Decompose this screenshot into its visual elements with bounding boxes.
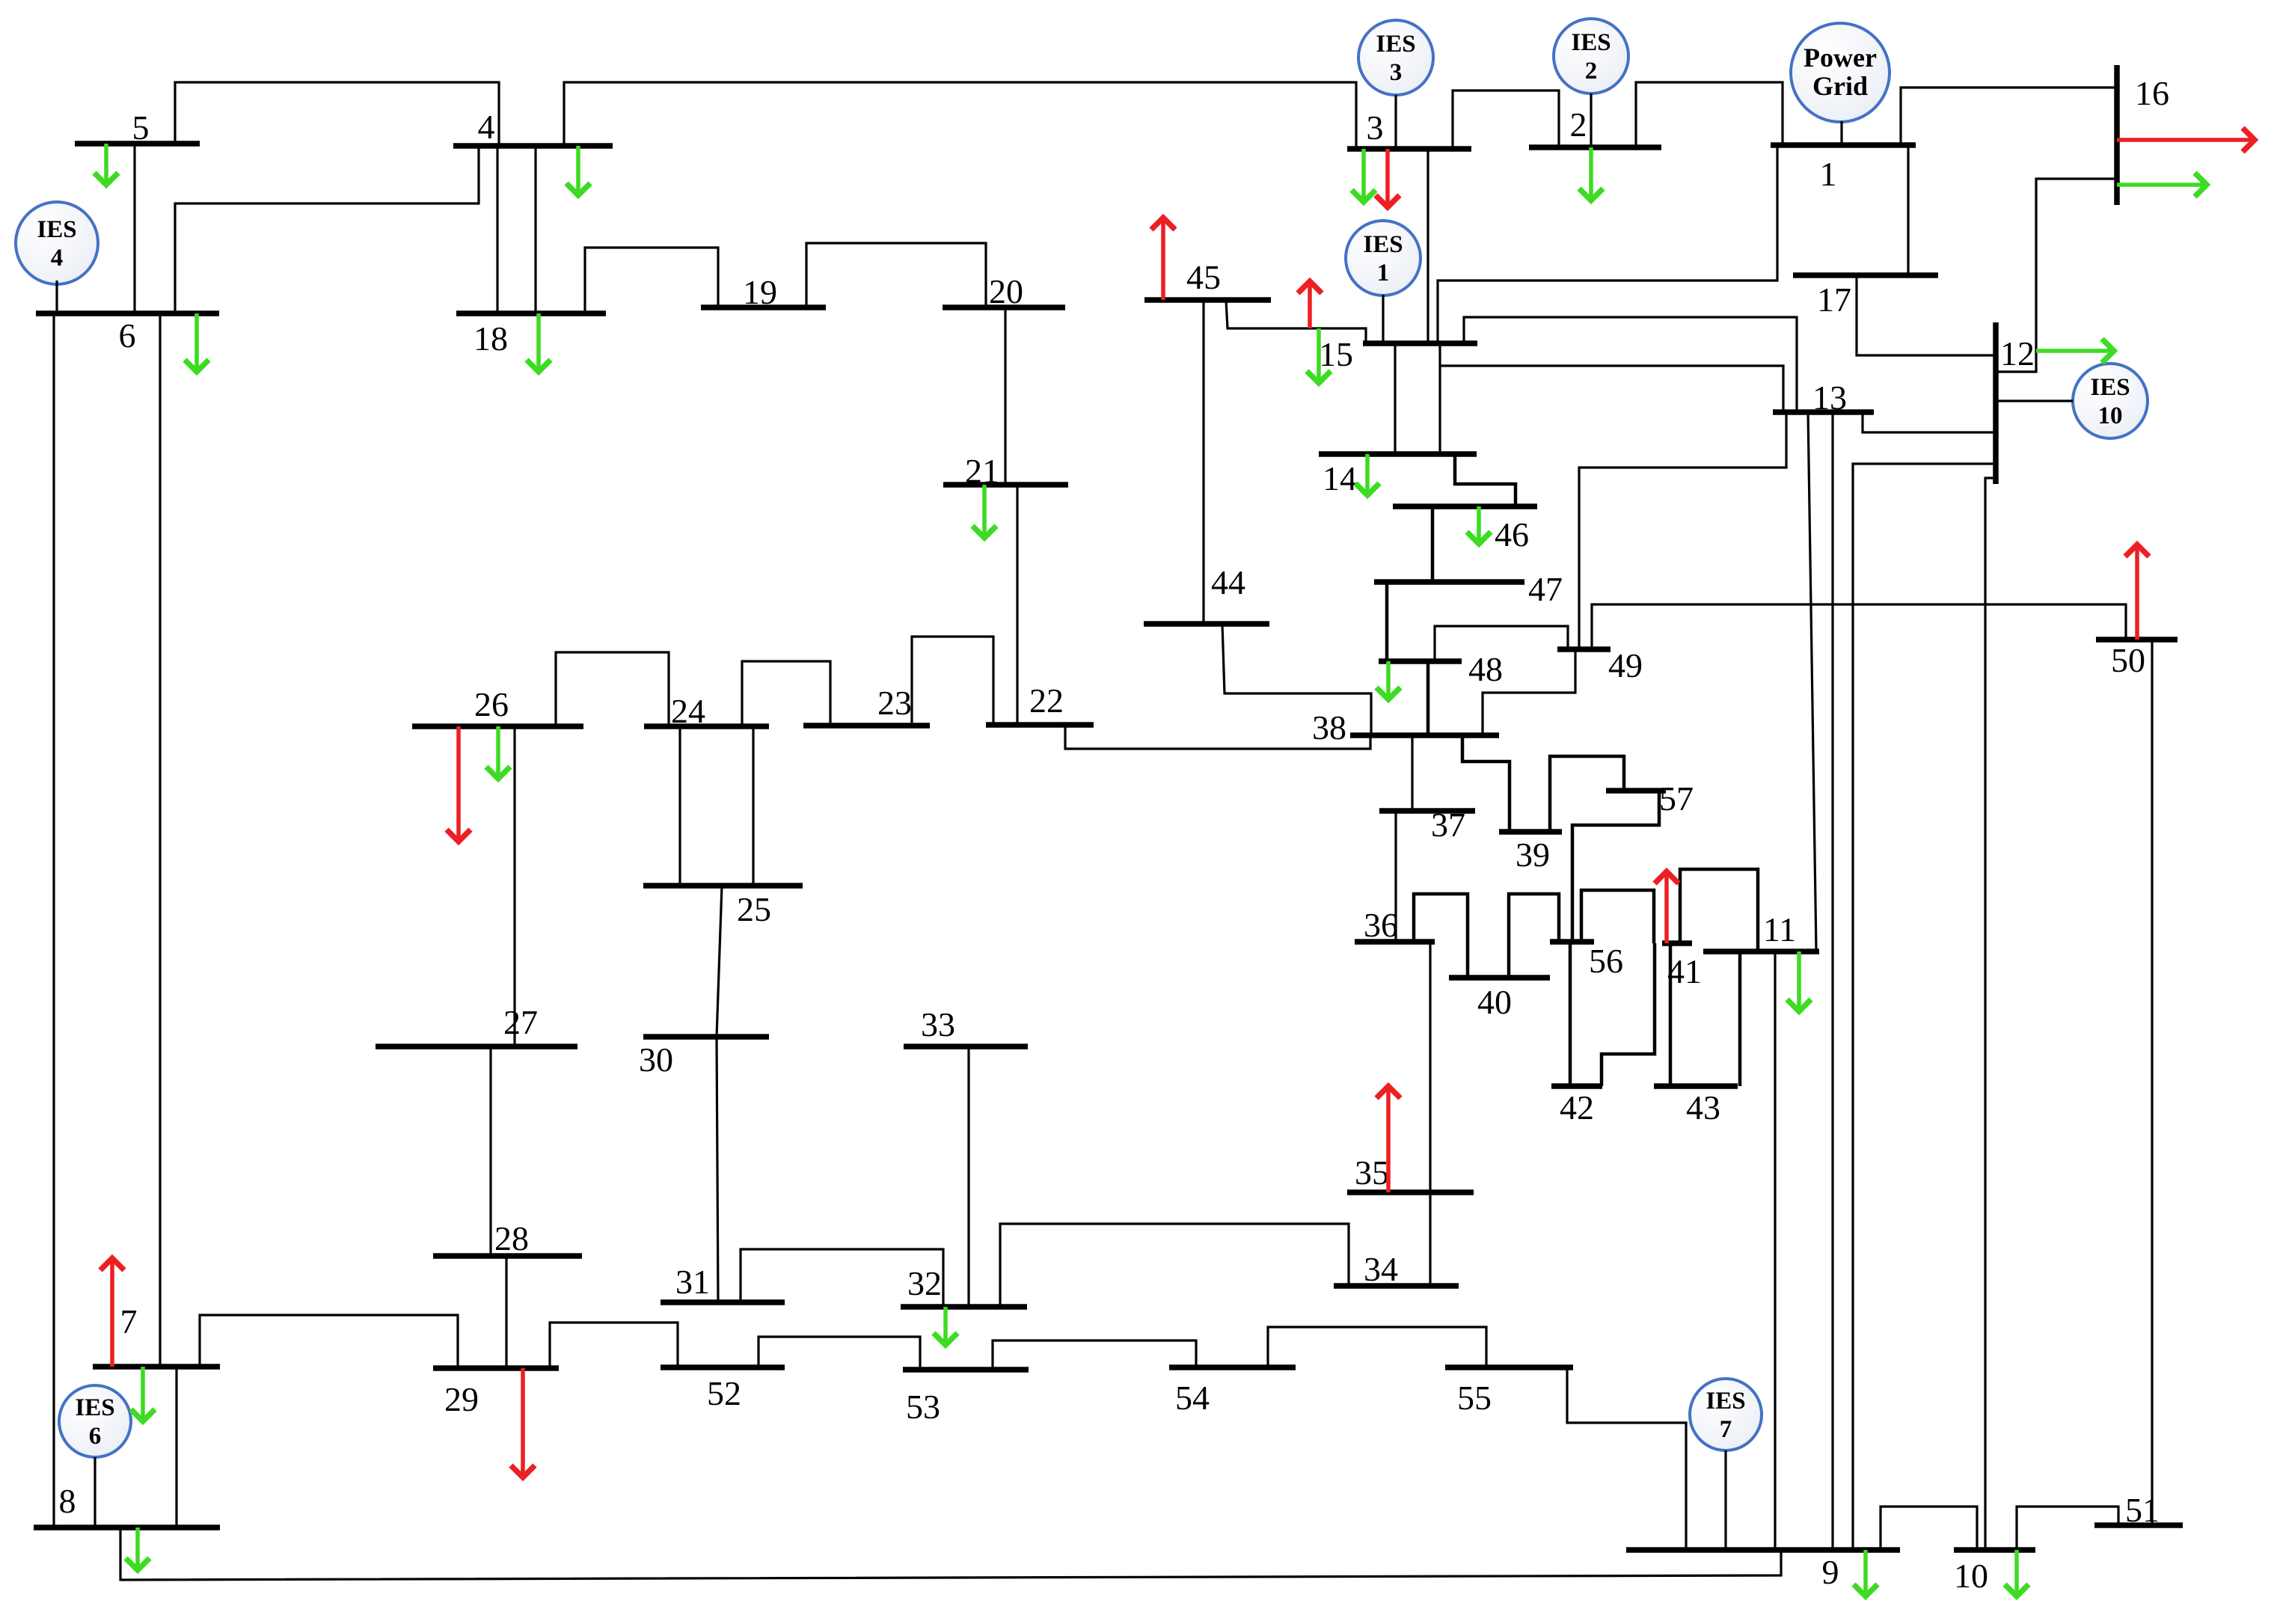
bus 7 — [93, 1364, 220, 1370]
load arrow bus 48 — [1386, 661, 1391, 698]
wire 20-21 — [1004, 307, 1006, 485]
bus 55 — [1445, 1364, 1573, 1370]
svg-text:IES: IES — [37, 216, 76, 243]
svg-text:25: 25 — [737, 890, 771, 928]
wire 24-25 b — [752, 726, 754, 886]
bus 41 — [1662, 940, 1692, 946]
svg-text:3: 3 — [1390, 59, 1403, 86]
bus 53 — [903, 1367, 1029, 1373]
bus 44 — [1144, 621, 1269, 627]
wire 25-30-31 — [717, 886, 722, 1302]
svg-text:12: 12 — [2000, 334, 2035, 373]
svg-text:IES: IES — [1571, 29, 1611, 56]
load arrow bus 32 — [943, 1307, 948, 1343]
wire 28-29 — [505, 1255, 507, 1368]
wire 38-39 rail — [1462, 735, 1510, 832]
wire 36-40 rail — [1414, 894, 1468, 978]
export arrow bus 16 green — [2117, 183, 2205, 187]
load arrow bus 4 — [576, 146, 580, 194]
load arrow bus 3 — [1361, 149, 1366, 200]
svg-text:46: 46 — [1495, 515, 1529, 554]
wire 15-13 rail — [1464, 317, 1797, 411]
svg-text:34: 34 — [1364, 1250, 1398, 1288]
svg-text:33: 33 — [921, 1005, 955, 1044]
svg-text:5: 5 — [132, 108, 150, 147]
wire 5-6 — [133, 144, 135, 313]
svg-text:3: 3 — [1367, 108, 1384, 147]
svg-text:4: 4 — [51, 245, 64, 272]
wire 37-36 — [1394, 811, 1397, 942]
bus 27 — [376, 1044, 577, 1050]
wire 32-34 rail — [1000, 1224, 1349, 1307]
wire 33-32 — [967, 1047, 969, 1307]
bus 42 — [1551, 1083, 1602, 1089]
IES 10 source circle — [2073, 364, 2148, 438]
IES7 stem — [1724, 1450, 1726, 1550]
svg-text:IES: IES — [1706, 1388, 1745, 1415]
svg-text:19: 19 — [743, 273, 777, 311]
svg-text:51: 51 — [2125, 1491, 2160, 1529]
gen arrow bus 50 — [2135, 546, 2139, 640]
svg-text:45: 45 — [1186, 258, 1221, 296]
svg-text:1: 1 — [1377, 260, 1390, 287]
wire 47-48 — [1385, 582, 1389, 661]
gen arrow bus 7 red — [110, 1260, 114, 1367]
bus 51 — [2094, 1522, 2183, 1528]
svg-text:27: 27 — [503, 1003, 538, 1041]
IES 2 source circle — [1554, 19, 1628, 94]
svg-text:37: 37 — [1431, 806, 1465, 844]
bus 8 — [34, 1525, 220, 1530]
IES1 stem — [1382, 295, 1384, 343]
bus 26 — [412, 723, 583, 729]
svg-text:2: 2 — [1570, 105, 1587, 144]
wire 48-38 — [1426, 661, 1430, 735]
svg-text:36: 36 — [1364, 906, 1398, 944]
wire 55-9 rail — [1567, 1367, 1686, 1550]
wire 2-1 rail — [1636, 82, 1783, 147]
svg-text:52: 52 — [707, 1374, 741, 1412]
svg-text:1: 1 — [1820, 155, 1837, 193]
bus 48 — [1379, 658, 1462, 664]
bus 1 — [1771, 142, 1916, 148]
bus 52 — [661, 1364, 785, 1370]
svg-text:IES: IES — [2090, 374, 2130, 401]
bus 37 — [1379, 808, 1475, 814]
wire 48-49 rail — [1435, 626, 1568, 661]
bus 5 — [75, 141, 200, 147]
wire 12-10 — [1985, 478, 1996, 1550]
svg-text:38: 38 — [1312, 708, 1346, 747]
svg-text:28: 28 — [494, 1219, 529, 1257]
wire 29-52 rail — [550, 1323, 678, 1368]
wire 36-35-34 — [1429, 942, 1431, 1286]
svg-text:56: 56 — [1589, 942, 1623, 980]
bus 3 — [1347, 146, 1471, 152]
wire 14-13 rail — [1440, 366, 1783, 411]
wire 13-9 — [1831, 411, 1833, 1550]
wire 24-25 a — [678, 726, 681, 886]
IES 4 source circle — [16, 202, 98, 284]
IES 6 source circle — [59, 1385, 131, 1457]
wire 39-57 rail — [1550, 756, 1624, 832]
bus 36 — [1355, 939, 1435, 945]
wire 31-32 rail — [741, 1249, 943, 1307]
wire 18-19 rail — [585, 248, 718, 313]
svg-text:40: 40 — [1477, 983, 1512, 1021]
svg-text:8: 8 — [59, 1482, 76, 1520]
bus 17 — [1793, 272, 1938, 278]
wire 41-11 rail — [1680, 869, 1758, 952]
wire 3-2 rail — [1453, 91, 1559, 149]
wire 13-11 — [1808, 411, 1816, 952]
load arrow bus 8 — [135, 1528, 140, 1569]
bus 29 — [433, 1365, 559, 1371]
svg-text:44: 44 — [1211, 563, 1245, 601]
wire 49-38 rail — [1483, 649, 1575, 735]
load arrow bus 11 — [1797, 952, 1801, 1010]
svg-text:16: 16 — [2135, 74, 2169, 112]
svg-text:18: 18 — [474, 319, 508, 358]
bus 28 — [433, 1253, 582, 1259]
svg-text:17: 17 — [1817, 281, 1851, 319]
IES 3 source circle — [1358, 20, 1433, 95]
wire 41-42 rail — [1602, 943, 1655, 1086]
wire 11-9 — [1774, 952, 1776, 1550]
svg-text:10: 10 — [2098, 402, 2123, 429]
svg-text:13: 13 — [1812, 379, 1847, 417]
gen arrow bus 3 red — [1385, 149, 1390, 206]
svg-text:32: 32 — [907, 1264, 942, 1302]
wire 10-51 rail — [2017, 1507, 2118, 1550]
wire 49-50 rail — [1592, 604, 2126, 649]
wire 27-28 — [489, 1047, 491, 1255]
wire 4-18 b — [534, 146, 536, 313]
bus 45 — [1144, 297, 1271, 303]
bus 30 — [643, 1034, 769, 1040]
bus 16 — [2114, 65, 2120, 205]
svg-text:10: 10 — [1954, 1557, 1988, 1595]
wire 4-18 a — [496, 146, 498, 313]
bus 49 — [1557, 646, 1611, 652]
gen arrow bus 29 red — [521, 1368, 525, 1476]
svg-text:29: 29 — [444, 1380, 479, 1418]
export arrow bus 12 green — [2036, 349, 2112, 353]
bus 19 — [701, 304, 826, 310]
svg-text:50: 50 — [2111, 641, 2145, 679]
bus 57 — [1606, 788, 1666, 794]
svg-text:26: 26 — [474, 685, 509, 723]
IES3 stem — [1394, 95, 1397, 149]
svg-text:IES: IES — [75, 1394, 114, 1421]
wire 4-6 rail — [175, 146, 479, 313]
load arrow bus 6 — [194, 313, 199, 370]
svg-text:35: 35 — [1355, 1153, 1389, 1192]
wire 45-44 — [1202, 300, 1204, 624]
wire 12-9 rail — [1853, 464, 1996, 1550]
wire 26-24 rail — [556, 652, 669, 726]
svg-text:30: 30 — [639, 1041, 673, 1079]
svg-text:7: 7 — [1720, 1416, 1732, 1443]
wire 57-56 rail — [1572, 791, 1659, 942]
svg-text:4: 4 — [478, 108, 495, 146]
bus 40 — [1449, 975, 1550, 981]
bus 11 — [1703, 949, 1819, 955]
bus 25 — [643, 883, 803, 889]
svg-text:49: 49 — [1608, 646, 1643, 684]
svg-text:20: 20 — [989, 272, 1023, 310]
svg-text:24: 24 — [671, 692, 705, 730]
wire 15-14 b — [1438, 343, 1441, 454]
svg-text:IES: IES — [1363, 231, 1403, 258]
bus 12 — [1993, 322, 1999, 484]
wire 13-12 rail — [1863, 411, 1996, 432]
load arrow bus 7 — [141, 1367, 145, 1420]
svg-text:57: 57 — [1659, 779, 1694, 818]
wire 54-55 rail — [1268, 1327, 1486, 1367]
svg-text:48: 48 — [1468, 650, 1503, 688]
bus 46 — [1393, 503, 1537, 509]
svg-text:15: 15 — [1319, 335, 1353, 373]
bus 2 — [1529, 144, 1661, 150]
load arrow bus 15 — [1317, 328, 1321, 382]
bus 23 — [803, 723, 930, 729]
IES10 stem — [1996, 399, 2073, 402]
svg-text:7: 7 — [120, 1302, 138, 1340]
bus 24 — [644, 723, 769, 729]
wire 21-22 — [1016, 485, 1018, 725]
load arrow bus 9 — [1863, 1550, 1868, 1595]
svg-text:Power: Power — [1803, 43, 1877, 73]
wire 23-22 rail — [912, 637, 993, 726]
svg-text:47: 47 — [1528, 570, 1563, 608]
bus 47 — [1374, 579, 1524, 585]
wire 11-43 — [1738, 952, 1742, 1086]
wire 4-3 top rail — [564, 82, 1356, 149]
IES 1 source circle — [1346, 221, 1421, 295]
gen arrow bus 26 red — [456, 726, 461, 840]
bus 56 — [1550, 939, 1594, 945]
wire 40-56 rail — [1509, 894, 1559, 978]
wire 26-27 — [513, 726, 515, 1047]
svg-text:53: 53 — [906, 1388, 940, 1426]
bus 9 — [1626, 1547, 1900, 1553]
wire 56-41 rail — [1581, 890, 1654, 943]
load arrow bus 5 — [104, 144, 108, 183]
bus 4 — [453, 143, 613, 149]
wire 46-47 — [1431, 506, 1435, 582]
wire 5-4 top rail — [175, 82, 499, 146]
bus 39 — [1499, 829, 1562, 835]
svg-text:IES: IES — [1376, 31, 1415, 58]
IES2 stem — [1590, 94, 1592, 147]
svg-text:11: 11 — [1763, 910, 1796, 949]
wire 9-10 rail — [1881, 1507, 1977, 1550]
svg-text:55: 55 — [1457, 1379, 1492, 1417]
wire 15-14 a — [1394, 343, 1396, 454]
wire 7-8 — [175, 1367, 177, 1528]
wire 7-29 rail — [200, 1315, 458, 1368]
wire 44-38 rail — [1222, 624, 1371, 735]
bus 35 — [1347, 1189, 1474, 1195]
wire 17-12 rail — [1857, 275, 1996, 355]
bus 33 — [904, 1044, 1028, 1050]
wire 15-1 rail — [1438, 145, 1777, 343]
svg-text:Grid: Grid — [1812, 71, 1868, 101]
bus 20 — [943, 304, 1065, 310]
wire 45-15 rail — [1226, 300, 1366, 343]
load arrow bus 26 — [496, 726, 500, 777]
bus 15 — [1363, 340, 1477, 346]
wire 53-54 rail — [993, 1340, 1196, 1370]
wire 19-20 rail — [806, 243, 986, 307]
svg-text:43: 43 — [1686, 1088, 1720, 1127]
wire 6-8 left vertical — [52, 313, 55, 1528]
wire 52-53 rail — [759, 1337, 920, 1370]
svg-text:6: 6 — [119, 316, 136, 355]
IES6 stem — [94, 1457, 96, 1528]
bus 18 — [456, 310, 606, 316]
svg-text:22: 22 — [1029, 681, 1064, 720]
wire 41-43 — [1669, 943, 1673, 1086]
wire 1-16 rail — [1901, 88, 2117, 145]
svg-text:54: 54 — [1175, 1379, 1210, 1417]
bus 43 — [1654, 1083, 1738, 1089]
bus 38 — [1350, 732, 1499, 738]
bus 22 — [986, 722, 1094, 728]
load arrow bus 18 — [536, 313, 541, 370]
wire 24-23 rail — [742, 661, 830, 726]
load arrow bus 21 — [982, 485, 987, 536]
bus 10 — [1954, 1547, 2035, 1553]
svg-text:42: 42 — [1560, 1088, 1594, 1127]
svg-text:14: 14 — [1323, 459, 1357, 497]
bus 50 — [2096, 637, 2178, 643]
bus 34 — [1334, 1283, 1459, 1289]
wire 3-15 — [1426, 149, 1429, 343]
svg-text:41: 41 — [1667, 952, 1702, 990]
Power Grid stem — [1840, 121, 1842, 145]
bus 54 — [1169, 1364, 1296, 1370]
gen arrow bus 35 — [1386, 1088, 1391, 1192]
bus 31 — [661, 1299, 785, 1305]
IES 7 source circle — [1690, 1379, 1762, 1450]
IES4 stem — [55, 281, 58, 313]
svg-text:39: 39 — [1516, 836, 1550, 874]
bus 32 — [901, 1304, 1027, 1310]
wire 56-42 — [1569, 942, 1572, 1086]
gen arrow bus 41 — [1664, 873, 1669, 943]
svg-text:2: 2 — [1585, 58, 1598, 85]
load arrow bus 14 — [1365, 454, 1370, 494]
svg-text:31: 31 — [675, 1263, 710, 1301]
wire 6-7 vertical — [159, 313, 161, 1367]
load arrow bus 10 — [2014, 1550, 2019, 1595]
svg-text:9: 9 — [1822, 1553, 1839, 1591]
bus 6 — [36, 310, 219, 316]
wire 22-38 rail — [1065, 725, 1370, 749]
bus 21 — [943, 482, 1068, 488]
svg-text:21: 21 — [965, 452, 999, 490]
wire 8-9 bottom rail — [120, 1528, 1781, 1580]
wire 38-37 — [1411, 735, 1413, 811]
gen arrow bus 45 — [1161, 219, 1165, 300]
bus 13 — [1773, 409, 1874, 415]
load arrow bus 2 — [1589, 147, 1593, 199]
wire 12-16 rail — [1996, 179, 2117, 372]
svg-text:6: 6 — [89, 1423, 102, 1450]
gen arrow bus 15 — [1308, 283, 1312, 328]
Power Grid source circle — [1791, 23, 1890, 122]
wire 13-49 rail — [1579, 411, 1786, 649]
export arrow bus 16 red — [2117, 138, 2253, 142]
wire 1-17 right leg — [1907, 145, 1909, 275]
load arrow bus 46 — [1477, 506, 1481, 542]
svg-text:23: 23 — [877, 684, 912, 722]
wire 14-46 rail — [1455, 454, 1516, 506]
wire 50-51 — [2151, 640, 2153, 1525]
bus 14 — [1319, 451, 1477, 457]
